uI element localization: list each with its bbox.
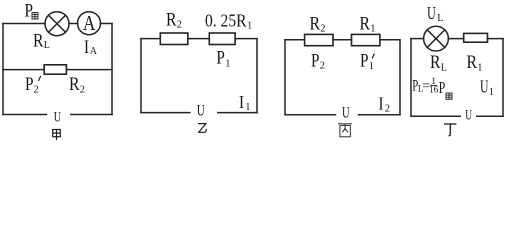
wire: right vertical of 甲 <box>111 24 113 115</box>
wire: between resistors of 丙 <box>333 39 352 41</box>
svg-text:I: I <box>84 38 89 58</box>
label 丁 (drawn glyph) <box>444 124 456 136</box>
svg-text:2: 2 <box>320 24 325 35</box>
wire: bottom right segment of 丙 <box>359 114 401 116</box>
svg-text:U: U <box>480 77 489 97</box>
svg-text:1: 1 <box>370 24 375 35</box>
ammeter A <box>78 11 101 35</box>
label R1 of 丙 <box>360 15 376 35</box>
svg-text:2: 2 <box>385 104 390 115</box>
wire: middle branch left of 甲 <box>3 69 44 71</box>
svg-text:P: P <box>360 52 369 72</box>
resistor R1 of 丙 (box) <box>352 34 380 45</box>
wire: bottom right segment of 甲 <box>71 114 112 116</box>
wire: top left segment of 丙 <box>285 39 305 41</box>
resistor R2 of 丙 (box) <box>305 34 333 45</box>
label 乙 (drawn glyph) <box>198 124 206 133</box>
label 丙 (drawn glyph) <box>338 124 352 137</box>
wire: top left segment of 丁 <box>411 38 424 40</box>
wire: top right segment of 丙 <box>380 39 400 41</box>
label P1 of 乙 <box>216 47 230 69</box>
svg-text:R: R <box>467 53 478 73</box>
svg-text:A: A <box>90 46 98 57</box>
svg-text:1: 1 <box>225 58 230 69</box>
wire: between resistors of 乙 <box>188 38 210 40</box>
label I2 of 丙 <box>379 94 391 115</box>
wire: left vertical of 丙 <box>284 40 286 115</box>
lamp UL (circle with X) <box>424 26 449 51</box>
wire: bottom right segment of 乙 <box>218 112 257 114</box>
label P2 of 丙 <box>311 51 325 71</box>
svg-text:2: 2 <box>320 60 325 71</box>
wire: top left segment of 乙 <box>141 38 160 40</box>
svg-text:1: 1 <box>489 87 494 98</box>
svg-text:U: U <box>465 108 472 124</box>
wire: right vertical of 丁 <box>502 39 504 117</box>
svg-text:R: R <box>33 31 44 51</box>
resistor R2 of 甲 (box) <box>44 65 66 74</box>
lamp RL (circle with X) <box>45 12 69 36</box>
label 甲 (drawn glyph) <box>53 130 61 141</box>
svg-text:1: 1 <box>477 63 482 74</box>
svg-text:L: L <box>44 40 50 51</box>
wire: lamp to resistor of 丁 <box>448 38 463 40</box>
svg-text:1: 1 <box>247 21 252 32</box>
wire: top right segment of 乙 <box>235 38 257 40</box>
svg-text:U: U <box>54 109 62 125</box>
svg-text:R: R <box>430 53 441 73</box>
wire: bottom left segment of 丙 <box>285 114 336 116</box>
wire: bottom right segment of 丁 <box>477 115 503 117</box>
label IA of ammeter <box>84 38 98 58</box>
label P额 (rated power of lamp) <box>25 0 39 21</box>
svg-text:U: U <box>342 105 350 122</box>
svg-text:L: L <box>441 63 447 74</box>
svg-text:2: 2 <box>80 85 85 96</box>
label R1 of 丁 <box>467 53 483 74</box>
resistor 0.25R1 of 乙 (box) <box>209 33 235 45</box>
wire: top left segment of 甲 <box>3 23 45 25</box>
wire: left vertical of 乙 <box>140 39 142 113</box>
svg-text:0. 25R: 0. 25R <box>205 11 247 31</box>
svg-text:A: A <box>83 11 96 35</box>
svg-text:P: P <box>439 78 446 97</box>
wire: bottom left segment of 丁 <box>411 115 460 117</box>
svg-text:P: P <box>216 47 225 68</box>
label P2' <box>25 75 41 95</box>
label U1 of 丁 <box>480 77 494 98</box>
svg-text:R: R <box>166 10 177 30</box>
svg-text:I: I <box>379 94 384 114</box>
svg-text:1: 1 <box>245 102 250 113</box>
wire: bottom left segment of 乙 <box>141 112 190 114</box>
wire: left vertical of 丁 <box>410 39 412 117</box>
wire: middle branch right of 甲 <box>66 69 112 71</box>
label 0.25R1 of 乙 <box>205 11 252 32</box>
wire: right vertical of 丙 <box>399 40 401 115</box>
wire: left vertical of 甲 <box>2 24 4 115</box>
svg-text:R: R <box>360 15 371 35</box>
label P1' of 丙 <box>360 52 374 73</box>
svg-text:P: P <box>25 75 34 95</box>
label UL of lamp <box>427 3 443 24</box>
svg-text:R: R <box>69 75 80 95</box>
resistor R2 of 乙 (box) <box>160 33 188 45</box>
svg-text:L: L <box>437 13 443 24</box>
svg-text:U: U <box>427 3 436 23</box>
wire: right vertical of 乙 <box>256 39 258 113</box>
label RL of 丁 <box>430 53 447 73</box>
svg-text:P: P <box>311 51 320 71</box>
wire: bottom left segment of 甲 <box>3 114 46 116</box>
label RL of lamp <box>33 31 50 51</box>
svg-text:I: I <box>239 92 244 112</box>
svg-text:1: 1 <box>369 61 374 72</box>
label R2 of 甲 <box>69 75 85 96</box>
wire: ammeter to top-right corner of 甲 <box>101 23 113 25</box>
svg-text:R: R <box>310 15 321 35</box>
label formula PL = 1/16 P额 <box>412 77 452 100</box>
label R2 of 丙 <box>310 15 326 35</box>
svg-text:U: U <box>197 103 205 120</box>
wire: top right segment of 丁 <box>488 38 504 40</box>
label R2 of 乙 <box>166 10 182 30</box>
svg-text:2: 2 <box>177 20 182 31</box>
wire: lamp to ammeter <box>69 23 78 25</box>
svg-text:2: 2 <box>34 84 39 95</box>
resistor R1 of 丁 (box) <box>464 33 488 42</box>
svg-text:16: 16 <box>429 85 439 95</box>
label I1 of 乙 <box>239 92 250 113</box>
